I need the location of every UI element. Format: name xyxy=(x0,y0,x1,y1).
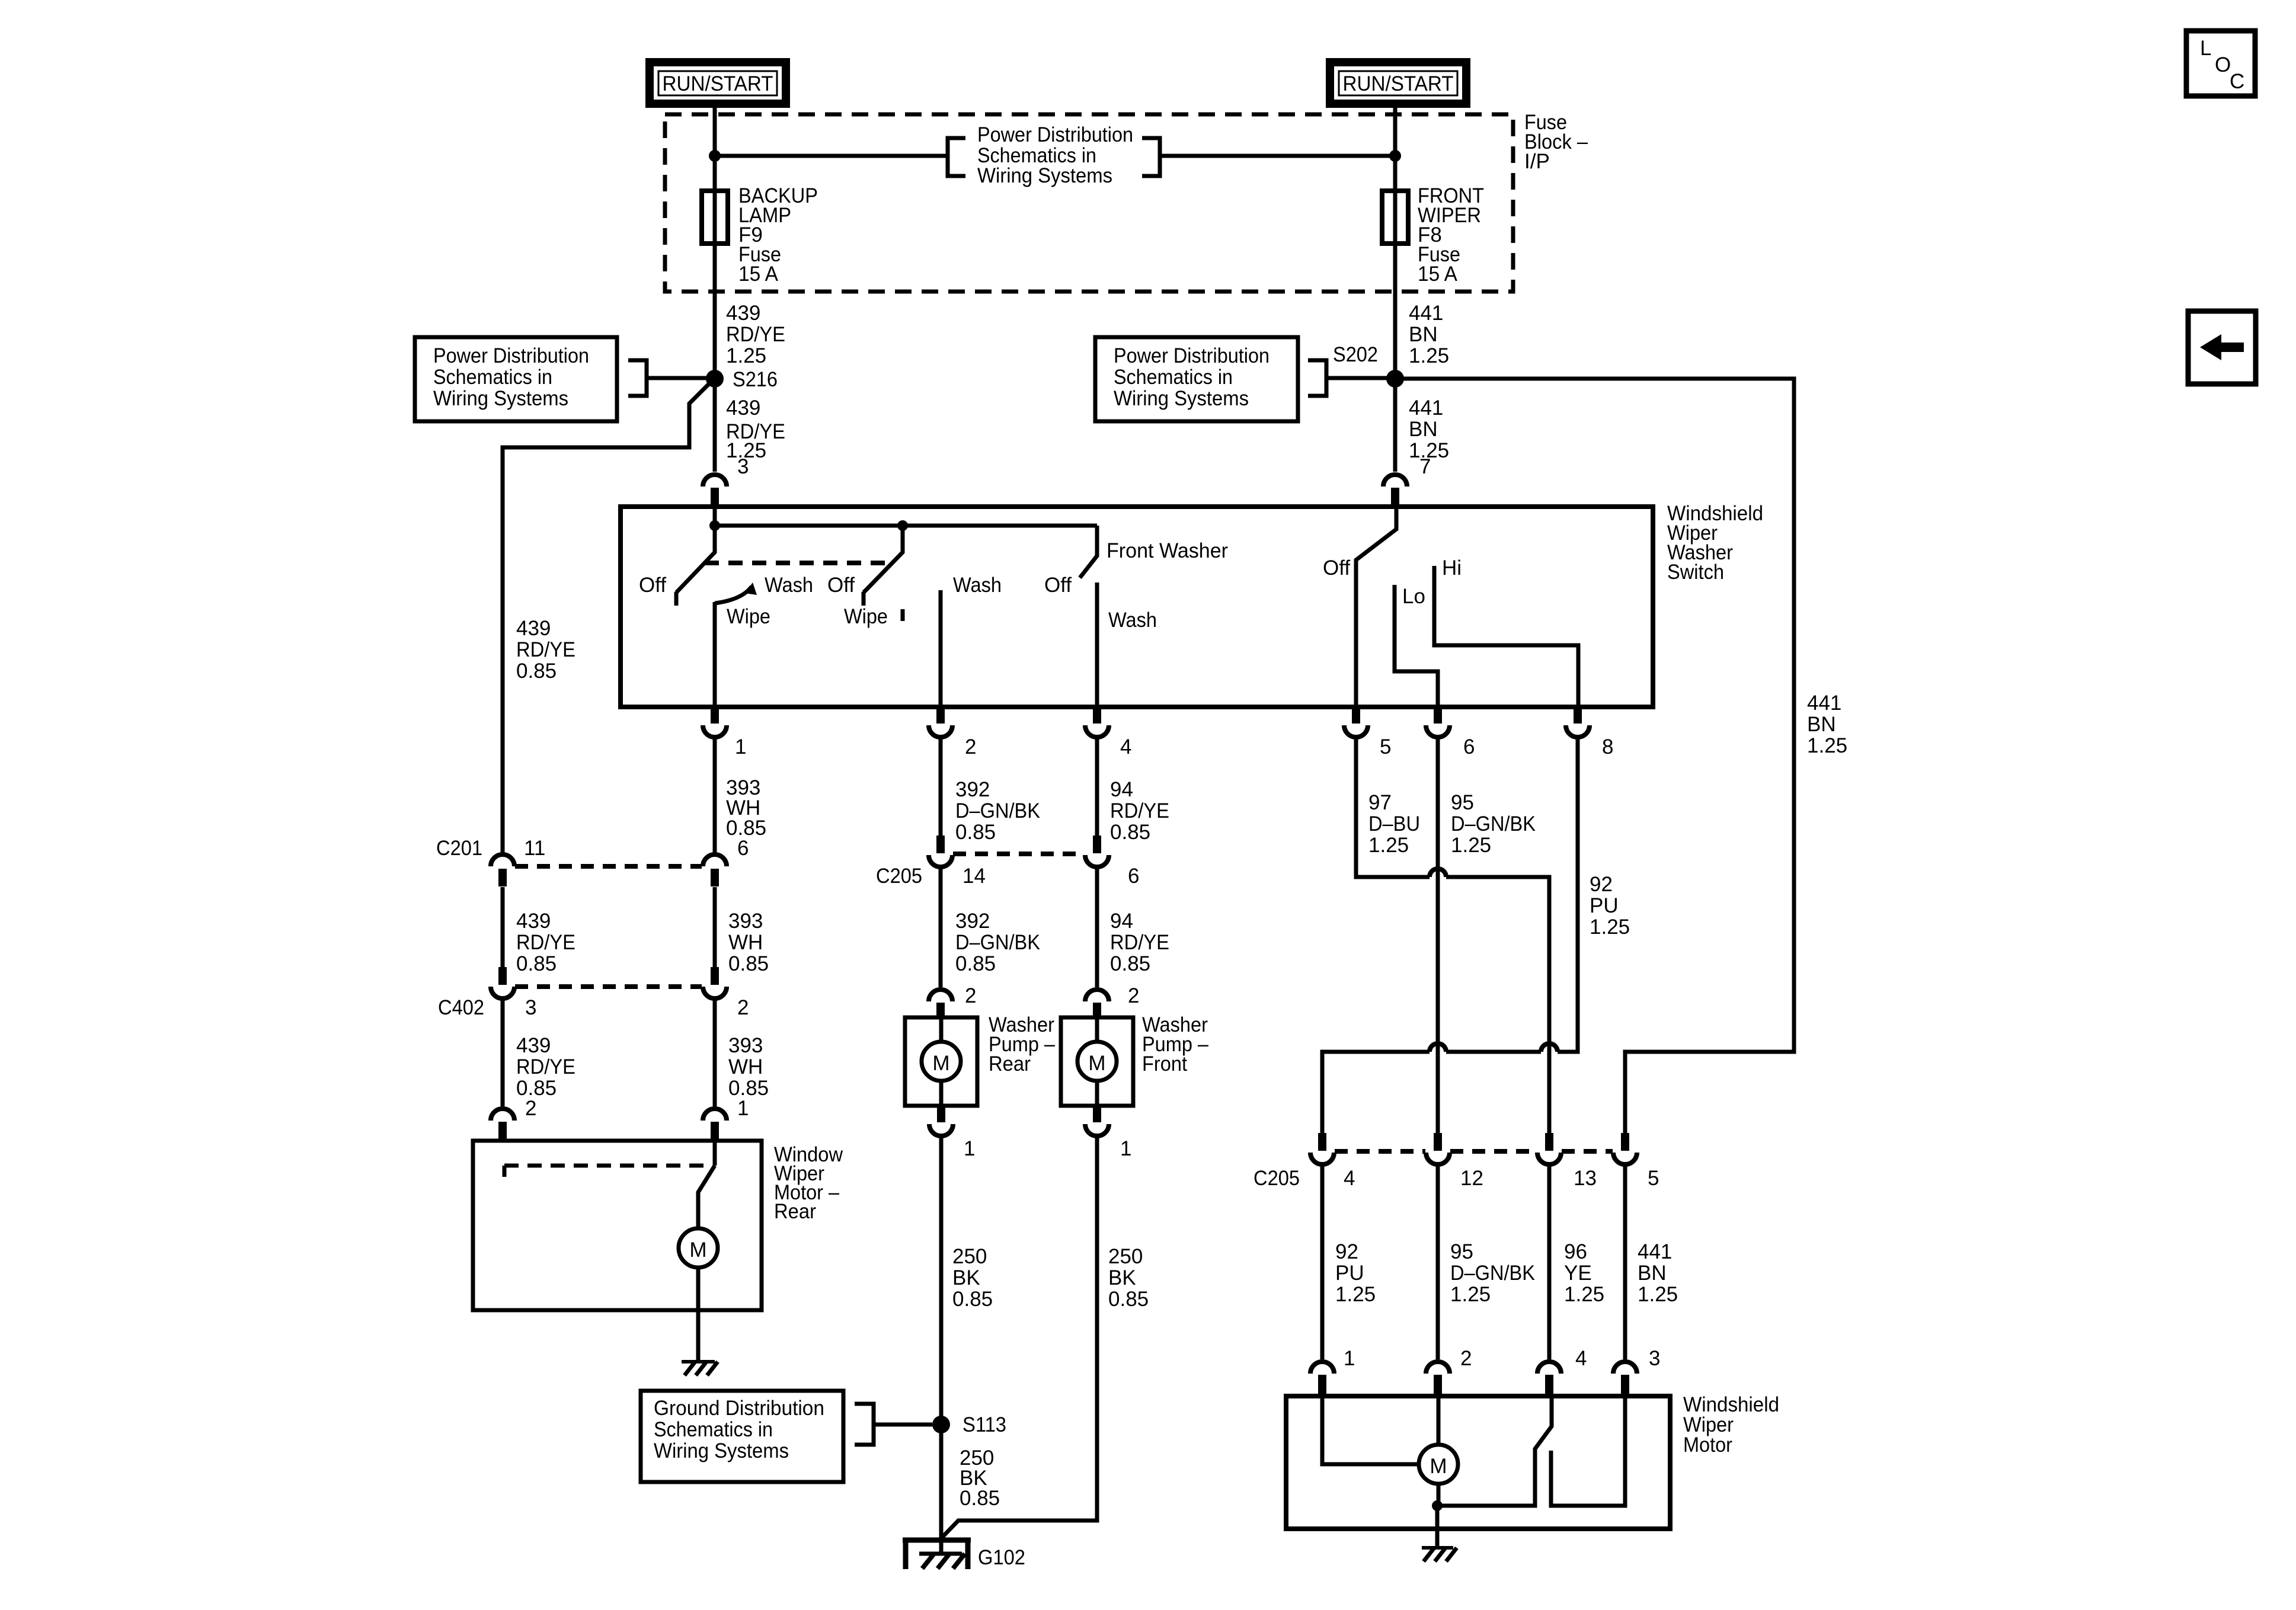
svg-text:RD/YE: RD/YE xyxy=(516,638,575,661)
svg-text:14: 14 xyxy=(962,865,986,888)
svg-text:6: 6 xyxy=(737,837,749,860)
svg-text:G102: G102 xyxy=(978,1546,1025,1569)
svg-text:Off: Off xyxy=(827,574,855,597)
svg-text:3: 3 xyxy=(1649,1347,1660,1370)
svg-text:439: 439 xyxy=(726,302,760,325)
svg-text:441: 441 xyxy=(1638,1240,1672,1263)
svg-text:1.25: 1.25 xyxy=(1368,834,1409,857)
svg-text:95: 95 xyxy=(1450,1240,1473,1263)
svg-text:393: 393 xyxy=(728,1034,763,1057)
svg-text:D–GN/BK: D–GN/BK xyxy=(1450,1262,1535,1285)
svg-text:O: O xyxy=(2215,53,2231,76)
svg-text:97: 97 xyxy=(1368,791,1392,814)
svg-text:1.25: 1.25 xyxy=(1807,734,1847,757)
svg-text:M: M xyxy=(1088,1052,1105,1075)
svg-text:11: 11 xyxy=(524,837,545,860)
svg-text:Switch: Switch xyxy=(1667,561,1724,584)
svg-text:Lo: Lo xyxy=(1402,585,1425,608)
svg-text:BK: BK xyxy=(952,1266,980,1289)
svg-text:439: 439 xyxy=(516,910,551,933)
svg-text:C: C xyxy=(2230,70,2244,93)
svg-text:Ground Distribution: Ground Distribution xyxy=(654,1397,824,1420)
svg-text:4: 4 xyxy=(1344,1167,1355,1190)
svg-text:6: 6 xyxy=(1128,865,1139,888)
svg-text:Wash: Wash xyxy=(1108,609,1157,632)
svg-text:D–GN/BK: D–GN/BK xyxy=(955,931,1040,954)
svg-text:1.25: 1.25 xyxy=(1564,1283,1604,1306)
svg-text:RD/YE: RD/YE xyxy=(1110,931,1169,954)
svg-text:Off: Off xyxy=(1323,556,1350,580)
svg-text:RD/YE: RD/YE xyxy=(726,323,785,346)
svg-text:M: M xyxy=(1430,1455,1447,1478)
svg-text:1.25: 1.25 xyxy=(1409,344,1449,367)
svg-text:Schematics in: Schematics in xyxy=(433,366,552,389)
svg-text:C205: C205 xyxy=(1253,1167,1300,1190)
svg-text:1.25: 1.25 xyxy=(1590,916,1630,939)
svg-text:95: 95 xyxy=(1451,791,1474,814)
svg-text:4: 4 xyxy=(1575,1347,1587,1370)
svg-text:94: 94 xyxy=(1110,778,1133,801)
svg-text:2: 2 xyxy=(965,984,976,1007)
svg-text:1: 1 xyxy=(737,1097,749,1120)
svg-text:Wash: Wash xyxy=(765,574,813,597)
svg-text:92: 92 xyxy=(1335,1240,1358,1263)
svg-text:1: 1 xyxy=(964,1137,975,1160)
svg-text:RUN/START: RUN/START xyxy=(1343,72,1454,95)
svg-text:BK: BK xyxy=(1108,1266,1136,1289)
svg-text:0.85: 0.85 xyxy=(516,660,557,683)
svg-text:Power Distribution: Power Distribution xyxy=(433,344,589,367)
svg-text:WH: WH xyxy=(728,1055,763,1078)
svg-text:5: 5 xyxy=(1380,735,1391,758)
svg-text:2: 2 xyxy=(965,735,976,758)
svg-text:15 A: 15 A xyxy=(1418,263,1458,286)
svg-text:S216: S216 xyxy=(733,368,778,391)
svg-text:Wipe: Wipe xyxy=(844,605,888,628)
svg-text:M: M xyxy=(932,1052,949,1075)
svg-text:2: 2 xyxy=(737,996,749,1019)
svg-text:0.85: 0.85 xyxy=(1110,821,1150,844)
svg-text:S113: S113 xyxy=(962,1413,1006,1436)
svg-text:96: 96 xyxy=(1564,1240,1587,1263)
svg-text:392: 392 xyxy=(955,910,990,933)
svg-text:1: 1 xyxy=(1120,1137,1131,1160)
svg-text:439: 439 xyxy=(726,396,760,420)
svg-text:441: 441 xyxy=(1409,396,1443,420)
svg-text:0.85: 0.85 xyxy=(728,952,769,975)
svg-text:Wiring Systems: Wiring Systems xyxy=(654,1439,789,1462)
svg-text:Rear: Rear xyxy=(774,1200,816,1223)
svg-text:BN: BN xyxy=(1638,1262,1667,1285)
svg-text:0.85: 0.85 xyxy=(1108,1288,1149,1311)
svg-text:393: 393 xyxy=(728,910,763,933)
svg-text:S202: S202 xyxy=(1333,343,1378,366)
svg-text:13: 13 xyxy=(1574,1167,1597,1190)
svg-text:7: 7 xyxy=(1419,455,1431,478)
svg-text:250: 250 xyxy=(952,1245,987,1268)
svg-text:0.85: 0.85 xyxy=(952,1288,993,1311)
svg-text:Wash: Wash xyxy=(953,574,1002,597)
svg-text:RD/YE: RD/YE xyxy=(516,1055,575,1078)
svg-text:D–GN/BK: D–GN/BK xyxy=(1451,812,1536,836)
svg-text:15 A: 15 A xyxy=(738,263,779,286)
svg-text:Power Distribution: Power Distribution xyxy=(977,123,1133,146)
svg-text:L: L xyxy=(2200,37,2211,60)
svg-text:D–GN/BK: D–GN/BK xyxy=(955,799,1040,822)
svg-text:441: 441 xyxy=(1807,692,1841,715)
svg-text:1: 1 xyxy=(1344,1347,1355,1370)
svg-text:RD/YE: RD/YE xyxy=(1110,799,1169,822)
svg-text:RD/YE: RD/YE xyxy=(516,931,575,954)
svg-text:Schematics in: Schematics in xyxy=(654,1418,773,1441)
svg-text:PU: PU xyxy=(1590,894,1619,917)
svg-text:3: 3 xyxy=(737,455,749,478)
svg-text:Off: Off xyxy=(1044,574,1072,597)
svg-text:Power Distribution: Power Distribution xyxy=(1114,344,1269,367)
svg-text:0.85: 0.85 xyxy=(955,952,996,975)
svg-text:1.25: 1.25 xyxy=(726,344,766,367)
svg-text:C201: C201 xyxy=(436,837,482,860)
svg-text:0.85: 0.85 xyxy=(955,821,996,844)
svg-text:BN: BN xyxy=(1807,713,1836,736)
svg-text:5: 5 xyxy=(1648,1167,1659,1190)
svg-text:12: 12 xyxy=(1460,1167,1483,1190)
svg-text:C402: C402 xyxy=(438,996,484,1019)
svg-text:3: 3 xyxy=(525,996,536,1019)
svg-text:Wipe: Wipe xyxy=(727,605,770,628)
svg-text:250: 250 xyxy=(1108,1245,1143,1268)
svg-text:1.25: 1.25 xyxy=(1450,1283,1491,1306)
svg-text:I/P: I/P xyxy=(1524,150,1550,173)
svg-text:2: 2 xyxy=(1128,984,1139,1007)
svg-text:Wiring Systems: Wiring Systems xyxy=(1114,387,1249,410)
svg-text:1: 1 xyxy=(735,735,746,758)
svg-text:Motor: Motor xyxy=(1683,1433,1732,1457)
svg-text:BN: BN xyxy=(1409,323,1438,346)
svg-text:M: M xyxy=(689,1238,706,1262)
svg-text:439: 439 xyxy=(516,617,551,640)
svg-text:94: 94 xyxy=(1110,910,1133,933)
svg-text:0.85: 0.85 xyxy=(516,952,557,975)
svg-text:1.25: 1.25 xyxy=(1335,1283,1376,1306)
svg-text:392: 392 xyxy=(955,778,990,801)
svg-text:Rear: Rear xyxy=(989,1052,1031,1076)
svg-text:D–BU: D–BU xyxy=(1368,812,1420,836)
svg-text:439: 439 xyxy=(516,1034,551,1057)
svg-text:RUN/START: RUN/START xyxy=(663,72,773,95)
svg-text:0.85: 0.85 xyxy=(1110,952,1150,975)
svg-text:6: 6 xyxy=(1463,735,1475,758)
svg-text:PU: PU xyxy=(1335,1262,1364,1285)
svg-text:Front Washer: Front Washer xyxy=(1107,539,1228,562)
svg-text:Off: Off xyxy=(639,574,666,597)
svg-text:2: 2 xyxy=(525,1097,536,1120)
svg-text:8: 8 xyxy=(1602,735,1613,758)
svg-text:Wiring Systems: Wiring Systems xyxy=(977,164,1112,187)
svg-text:Wiring Systems: Wiring Systems xyxy=(433,387,568,410)
svg-text:BN: BN xyxy=(1409,418,1438,441)
svg-text:WH: WH xyxy=(728,931,763,954)
svg-text:1.25: 1.25 xyxy=(1638,1283,1678,1306)
svg-text:C205: C205 xyxy=(876,865,922,888)
svg-text:YE: YE xyxy=(1564,1262,1592,1285)
svg-text:4: 4 xyxy=(1120,735,1131,758)
svg-text:Hi: Hi xyxy=(1442,556,1462,580)
svg-text:Front: Front xyxy=(1142,1052,1187,1076)
svg-text:0.85: 0.85 xyxy=(960,1487,1000,1510)
svg-text:2: 2 xyxy=(1460,1347,1472,1370)
svg-text:1.25: 1.25 xyxy=(1451,834,1491,857)
svg-text:92: 92 xyxy=(1590,873,1613,896)
svg-text:441: 441 xyxy=(1409,302,1443,325)
svg-text:Schematics in: Schematics in xyxy=(1114,366,1233,389)
